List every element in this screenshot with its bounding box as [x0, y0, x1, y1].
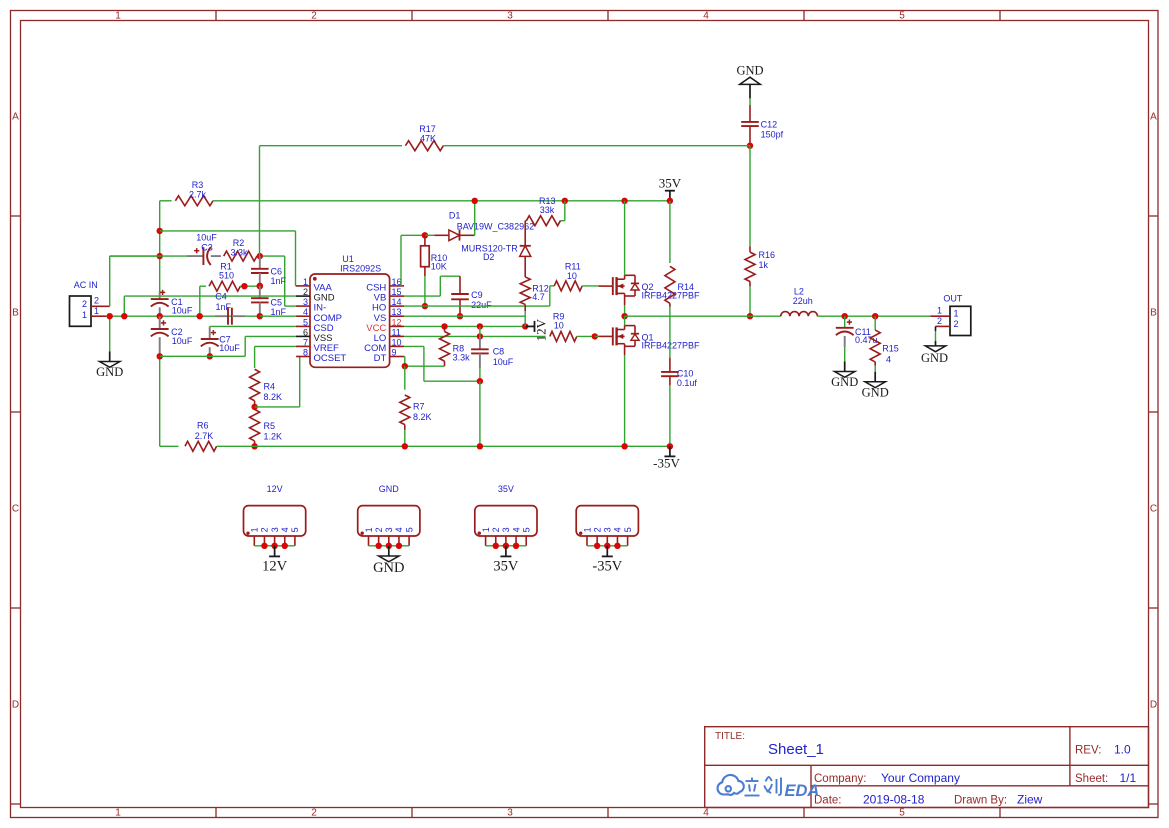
svg-text:2: 2	[592, 527, 602, 532]
wire R9 to Q1 gate	[595, 335, 599, 337]
svg-text:1: 1	[481, 527, 491, 532]
svg-text:1: 1	[250, 527, 260, 532]
svg-text:1nF: 1nF	[215, 302, 231, 312]
svg-text:12V: 12V	[262, 559, 288, 575]
wire L2 to OUT	[817, 315, 930, 317]
power flag 35V below header 3	[493, 546, 519, 575]
svg-text:R15: R15	[882, 343, 899, 353]
svg-text:510: 510	[219, 271, 234, 281]
svg-text:15: 15	[392, 287, 402, 297]
svg-text:1.0: 1.0	[1114, 743, 1131, 757]
svg-text:3: 3	[507, 11, 513, 22]
svg-text:1: 1	[82, 310, 87, 320]
svg-text:R6: R6	[197, 421, 209, 431]
svg-text:C4: C4	[215, 291, 227, 301]
wire Q1 source to rail	[624, 355, 626, 446]
resistor R14	[665, 201, 694, 358]
svg-text:6: 6	[303, 327, 308, 337]
svg-text:R16: R16	[759, 250, 776, 260]
junction VS midpoint	[621, 313, 627, 319]
svg-text:2: 2	[311, 808, 317, 819]
svg-text:8.2K: 8.2K	[264, 392, 283, 402]
resistor R3 2.7k	[160, 180, 213, 206]
resistor R6 2.7K	[160, 421, 217, 452]
junction C8 bottom	[477, 378, 483, 384]
junction R4/R5 node	[251, 404, 257, 410]
wire pin15 VB to C9	[404, 276, 460, 296]
junction DT node	[402, 363, 408, 369]
svg-text:10K: 10K	[431, 262, 447, 272]
U1 left pin numbers	[303, 277, 308, 358]
svg-text:GND: GND	[831, 375, 858, 389]
svg-text:5: 5	[522, 527, 532, 532]
wire VS to L2	[625, 315, 781, 317]
wire GND-line riser x=124.3	[124, 296, 297, 316]
svg-text:Sheet:: Sheet:	[1075, 773, 1108, 785]
svg-text:-35V: -35V	[653, 456, 680, 471]
svg-text:TITLE:: TITLE:	[715, 731, 745, 742]
svg-text:1nF: 1nF	[271, 276, 287, 286]
svg-text:10uF: 10uF	[219, 343, 240, 353]
op-amp U1 IRS2092S (IC body)	[310, 254, 390, 368]
svg-text:2019-08-18: 2019-08-18	[863, 793, 925, 807]
svg-text:10: 10	[567, 271, 577, 281]
wire OUT pin2 to GND	[935, 326, 937, 346]
junction VCC at C8	[477, 323, 483, 329]
svg-text:12: 12	[392, 317, 402, 327]
svg-text:4: 4	[511, 527, 521, 532]
svg-text:B: B	[12, 308, 19, 319]
junctions header 2	[375, 543, 402, 549]
capacitor C7 10uF	[201, 326, 240, 356]
svg-text:10uF: 10uF	[196, 232, 217, 242]
wire pin6 VSS to bottom of C2/C7	[160, 336, 298, 356]
wire pin10 COM to C8 bottom	[404, 346, 480, 381]
svg-text:33k: 33k	[540, 205, 555, 215]
svg-text:2: 2	[82, 299, 87, 309]
wire pin8 OCSET down to R4/R5 node	[255, 357, 300, 407]
svg-text:35V: 35V	[659, 176, 682, 191]
junction at x=124.3 on input line	[121, 313, 127, 319]
junction R2 right node	[257, 253, 263, 259]
junction R7 bottom on rail	[402, 443, 408, 449]
junction R1 right a	[241, 283, 247, 289]
wire pin16 CSH up and over	[401, 235, 425, 286]
svg-text:2: 2	[311, 11, 317, 22]
U1 right pin stubs 9-16	[390, 286, 404, 357]
ground GND below C11	[831, 361, 858, 389]
svg-text:R11: R11	[565, 262, 581, 272]
svg-text:GND: GND	[921, 351, 948, 365]
junction R1 right b	[257, 283, 263, 289]
power flag -35V at rail end	[653, 446, 680, 470]
wire pin5 CSD line	[210, 325, 298, 327]
junction R1 left bottom	[197, 313, 203, 319]
resistor R11 10	[550, 262, 599, 291]
svg-text:OCSET: OCSET	[314, 353, 347, 364]
capacitor C2 10uF	[151, 316, 193, 356]
junction C5 bottom	[257, 313, 263, 319]
svg-text:AC IN: AC IN	[74, 280, 98, 290]
wire C8 bottom to -35V rail	[479, 381, 481, 446]
wire y=230.9 to pin1 riser	[160, 231, 298, 286]
ground GND at AC IN	[96, 351, 123, 379]
svg-text:1: 1	[582, 527, 592, 532]
svg-text:R5: R5	[264, 421, 276, 431]
svg-text:3: 3	[384, 527, 394, 532]
svg-text:B: B	[1150, 308, 1157, 319]
junction rail at x=564.8	[562, 198, 568, 204]
svg-text:DT: DT	[374, 353, 387, 364]
resistor R10 10K (box style)	[421, 235, 448, 306]
svg-text:GND: GND	[96, 365, 123, 379]
wire R2 right to pin3 IN-	[260, 256, 298, 306]
svg-text:D2: D2	[483, 252, 495, 262]
svg-text:BAV19W_C382962: BAV19W_C382962	[457, 222, 534, 232]
wire pin7 VREF down	[255, 346, 298, 368]
svg-text:2.7k: 2.7k	[189, 189, 207, 199]
U1 left pin names	[314, 283, 347, 365]
svg-text:C5: C5	[271, 297, 283, 307]
capacitor C10 0.1uf	[661, 358, 697, 447]
svg-text:3.3k: 3.3k	[230, 247, 248, 257]
junction C10 bottom on rail	[667, 443, 673, 449]
resistor R12 4.7	[520, 277, 549, 326]
junction C7 bottom	[207, 353, 213, 359]
junction at AC-IN pin1	[107, 313, 113, 319]
junction R5 bottom on rail	[251, 443, 257, 449]
ground GND at OUT	[921, 346, 948, 365]
svg-text:13: 13	[392, 307, 402, 317]
svg-text:C8: C8	[493, 347, 505, 357]
junction x=159.7 y=256.1	[157, 253, 163, 259]
svg-text:1: 1	[94, 306, 99, 316]
svg-text:3: 3	[270, 527, 280, 532]
svg-text:22uh: 22uh	[793, 296, 813, 306]
svg-text:A: A	[12, 112, 19, 123]
svg-text:1: 1	[303, 277, 308, 287]
svg-text:GND: GND	[862, 385, 889, 399]
resistor R7 8.2K	[400, 366, 432, 446]
capacitor C8 10uF	[471, 336, 514, 381]
junction rail at 35V	[667, 198, 673, 204]
wire pin14 HO to R11	[404, 286, 550, 306]
resistor R1 510	[200, 261, 260, 316]
wire -35V bottom rail	[217, 445, 670, 447]
connector header 2	[358, 484, 420, 546]
svg-text:4: 4	[613, 527, 623, 532]
svg-text:5: 5	[899, 11, 905, 22]
svg-text:Ziew: Ziew	[1017, 793, 1043, 807]
svg-text:IRS2092S: IRS2092S	[340, 264, 381, 274]
junction R9 right / Q1 gate	[592, 333, 598, 339]
junction D1 anode node	[422, 232, 428, 238]
svg-text:4: 4	[703, 11, 709, 22]
wire AC-IN down to GND	[109, 316, 111, 351]
svg-text:C: C	[1150, 504, 1157, 515]
junction Q1 source on rail	[621, 443, 627, 449]
svg-text:35V: 35V	[498, 484, 514, 494]
svg-text:0.1uf: 0.1uf	[677, 378, 698, 388]
svg-text:14: 14	[392, 297, 402, 307]
junction LO at C8	[477, 333, 483, 339]
svg-text:1: 1	[364, 527, 374, 532]
junction rail at Q2 drain	[621, 198, 627, 204]
svg-text:C3: C3	[201, 243, 213, 253]
svg-text:10uF: 10uF	[493, 357, 514, 367]
svg-text:10: 10	[392, 337, 402, 347]
junction rail at x=474.7	[472, 198, 478, 204]
junction at R15	[872, 313, 878, 319]
svg-text:5: 5	[290, 527, 300, 532]
svg-text:4: 4	[280, 527, 290, 532]
svg-text:16: 16	[392, 277, 402, 287]
svg-text:2: 2	[937, 316, 942, 326]
svg-text:10: 10	[554, 320, 564, 330]
svg-text:12V: 12V	[267, 484, 283, 494]
connector header 1	[244, 484, 306, 546]
svg-text:IRFB4227PBF: IRFB4227PBF	[642, 341, 701, 351]
transistor Q1 IRFB4227PBF	[599, 316, 701, 355]
svg-text:U1: U1	[342, 254, 354, 264]
svg-text:5: 5	[899, 808, 905, 819]
svg-text:D1: D1	[449, 210, 461, 220]
svg-text:GND: GND	[373, 560, 404, 576]
junction VCC at R8	[441, 323, 447, 329]
svg-text:GND: GND	[736, 63, 763, 77]
wire pin9 DT down	[404, 357, 445, 367]
svg-text:4: 4	[303, 307, 308, 317]
svg-text:5: 5	[404, 527, 414, 532]
svg-text:2: 2	[954, 319, 959, 329]
svg-text:GND: GND	[379, 484, 400, 494]
svg-text:Drawn By:: Drawn By:	[954, 795, 1007, 807]
svg-text:R7: R7	[413, 402, 425, 412]
U1 left pin stubs 1-8	[296, 286, 310, 357]
connector P? AC IN	[70, 280, 110, 326]
svg-text:1k: 1k	[759, 260, 769, 270]
junction R16 bottom on VS line	[747, 313, 753, 319]
junction C2 bottom	[157, 353, 163, 359]
svg-text:2: 2	[94, 295, 99, 305]
svg-text:C10: C10	[677, 368, 694, 378]
svg-text:12V: 12V	[534, 318, 549, 341]
connector header 4	[576, 506, 638, 546]
svg-text:R14: R14	[678, 282, 695, 292]
U1 right pin names	[364, 283, 386, 365]
resistor R2 3.3k	[224, 238, 257, 261]
capacitor C5 1nF	[251, 286, 287, 317]
resistor R8 3.3k	[440, 326, 471, 366]
svg-text:1/1: 1/1	[1120, 771, 1137, 785]
svg-text:35V: 35V	[493, 559, 519, 575]
wire input line to pin4 COMP	[260, 315, 298, 317]
svg-text:4: 4	[703, 808, 709, 819]
svg-text:Company:: Company:	[814, 773, 866, 785]
junction HO at R10	[422, 303, 428, 309]
svg-text:7: 7	[303, 337, 308, 347]
svg-text:C9: C9	[471, 290, 483, 300]
svg-text:R17: R17	[419, 124, 436, 134]
svg-text:C6: C6	[271, 266, 283, 276]
wire pin12 VCC line	[404, 325, 535, 327]
junction at C11	[842, 313, 848, 319]
ground GND above C12	[736, 63, 763, 98]
svg-text:D: D	[12, 700, 19, 711]
svg-text:4: 4	[886, 355, 891, 365]
svg-text:3: 3	[501, 527, 511, 532]
svg-text:3: 3	[603, 527, 613, 532]
svg-text:5: 5	[623, 527, 633, 532]
svg-text:Sheet_1: Sheet_1	[768, 741, 824, 758]
power flag 12V below header 1	[262, 546, 288, 575]
svg-text:-35V: -35V	[592, 559, 622, 575]
power flag -35V below header 4	[592, 546, 622, 575]
svg-text:1: 1	[954, 309, 959, 319]
svg-text:11: 11	[392, 327, 401, 337]
wire C8 tap between VCC and LO	[479, 326, 481, 336]
power flag 35V	[659, 176, 682, 201]
svg-text:L2: L2	[794, 286, 804, 296]
U1 right pin numbers	[392, 277, 402, 358]
svg-text:1: 1	[115, 11, 121, 22]
ground GND below header 2	[373, 546, 404, 576]
junction C8 line on rail	[477, 443, 483, 449]
capacitor C4 1nF (horizontal)	[215, 291, 245, 324]
svg-text:150pf: 150pf	[761, 129, 784, 139]
svg-text:OUT: OUT	[943, 294, 963, 304]
capacitor C9 22uF	[451, 276, 492, 316]
resistor R13 33k	[526, 196, 564, 226]
svg-text:1: 1	[937, 305, 942, 315]
junctions header 3	[493, 543, 520, 549]
capacitor C12 150pf	[741, 98, 783, 145]
svg-text:2: 2	[260, 527, 270, 532]
wire AC-IN pin1 node	[106, 315, 260, 317]
svg-text:2: 2	[374, 527, 384, 532]
resistor R5 1.2K	[250, 409, 282, 446]
capacitor C6 1nF	[251, 256, 287, 286]
EasyEDA logo	[718, 775, 744, 795]
junctions header 4	[594, 543, 621, 549]
wire pin11 LO line	[404, 335, 546, 337]
svg-text:1: 1	[115, 808, 121, 819]
wire 35V rail y=200.8	[213, 200, 670, 202]
svg-text:2.7K: 2.7K	[195, 431, 214, 441]
junctions header 1	[261, 543, 288, 549]
capacitor C1 10uF	[151, 290, 193, 316]
capacitor C11 0.47u	[836, 316, 878, 361]
svg-text:C: C	[12, 504, 19, 515]
svg-text:9: 9	[392, 348, 397, 358]
junction C12 bottom / R17 node	[747, 143, 753, 149]
capacitor C3 10uF (polarized horizontal)	[110, 232, 221, 265]
wire main left riser x=159.7	[159, 201, 161, 446]
svg-text:A: A	[1150, 112, 1157, 123]
svg-text:22uF: 22uF	[471, 300, 492, 310]
svg-text:C12: C12	[761, 119, 778, 129]
svg-text:3: 3	[507, 808, 513, 819]
junction VCC at R12	[522, 323, 528, 329]
title block texts	[715, 731, 1137, 807]
svg-text:2: 2	[303, 287, 308, 297]
svg-text:8.2K: 8.2K	[413, 412, 432, 422]
connector header 3	[475, 484, 537, 546]
junction VS at C9	[457, 313, 463, 319]
svg-text:4.7: 4.7	[532, 292, 545, 302]
inductor L2 22uh	[781, 286, 818, 316]
resistor R15 4	[870, 316, 899, 372]
svg-text:D: D	[1150, 700, 1157, 711]
svg-text:10uF: 10uF	[172, 336, 193, 346]
wire AC-IN pin2 up to C3 node	[110, 256, 160, 306]
junction x=159.7 y=230.9	[157, 228, 163, 234]
resistor R17 47K	[260, 124, 751, 256]
junction C1 bottom	[157, 313, 163, 319]
title block table	[705, 727, 1149, 808]
transistor Q2 IRFB4227PBF	[599, 201, 701, 305]
svg-text:R4: R4	[264, 382, 276, 392]
connector OUT	[930, 294, 971, 336]
svg-text:10uF: 10uF	[172, 306, 193, 316]
ground GND below R15	[862, 372, 889, 400]
svg-text:2: 2	[491, 527, 501, 532]
wire Q2 source to VS	[624, 305, 626, 316]
resistor R4 8.2K	[250, 369, 282, 407]
svg-text:Your Company: Your Company	[881, 771, 960, 785]
svg-text:EDA: EDA	[785, 782, 820, 800]
diode D2 MURS120-TR	[461, 221, 531, 277]
svg-text:1.2K: 1.2K	[264, 432, 283, 442]
svg-text:3: 3	[303, 297, 308, 307]
svg-text:3.3k: 3.3k	[453, 353, 471, 363]
resistor R9 10	[550, 311, 595, 341]
wire D1 cathode up to rail	[474, 201, 476, 236]
power flag 12V (rotated)	[525, 318, 548, 341]
wire pin13 VS line	[404, 315, 525, 317]
svg-text:8: 8	[303, 348, 308, 358]
junction C6 bottom	[257, 283, 263, 289]
svg-text:REV:: REV:	[1075, 745, 1101, 757]
diode D1 BAV19W_C382962	[425, 210, 534, 240]
resistor R16 1k	[745, 146, 775, 317]
svg-text:5: 5	[303, 317, 308, 327]
svg-text:47K: 47K	[420, 133, 436, 143]
svg-text:4: 4	[394, 527, 404, 532]
